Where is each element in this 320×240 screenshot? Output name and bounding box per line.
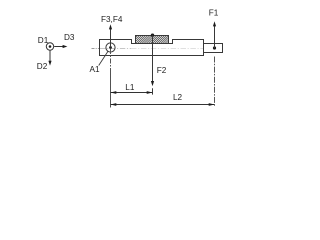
F2 extension stub to L1 line: [152, 88, 154, 94]
hub/key block with hatching: [136, 36, 169, 44]
svg-text:F2: F2: [157, 66, 167, 75]
force F1 arrow (up from journal): [213, 21, 216, 48]
extension line right (dash-dot below F1): [214, 57, 216, 107]
force F2 application dot: [151, 34, 154, 37]
svg-text:D2: D2: [37, 62, 48, 71]
extension line left (dash-dot below A1): [110, 49, 112, 70]
shaft body outline: [100, 40, 204, 56]
svg-text:D1: D1: [38, 36, 49, 45]
datum D1 symbol (circle with center dot): [46, 43, 53, 50]
svg-text:A1: A1: [90, 65, 100, 74]
svg-text:F1: F1: [209, 8, 219, 17]
datum axis D2 arrow: [48, 50, 51, 65]
shaft centerline (horizontal dash-dot): [92, 48, 100, 50]
shaft right journal (small end): [204, 44, 223, 53]
dimension L1: [111, 91, 153, 94]
bearing A1 (circle with center dot): [106, 43, 115, 52]
svg-text:L2: L2: [173, 93, 183, 102]
datum axis D3 arrow: [54, 45, 67, 48]
leader line to A1: [99, 51, 108, 65]
force F2 arrow (down through shaft): [151, 35, 154, 86]
force F3,F4 arrow (up from bearing): [109, 24, 112, 47]
svg-text:D3: D3: [64, 33, 75, 42]
svg-text:L1: L1: [125, 83, 135, 92]
force F1 application dot: [213, 46, 216, 49]
dimension L2: [111, 103, 215, 106]
svg-text:F3,F4: F3,F4: [101, 15, 123, 24]
